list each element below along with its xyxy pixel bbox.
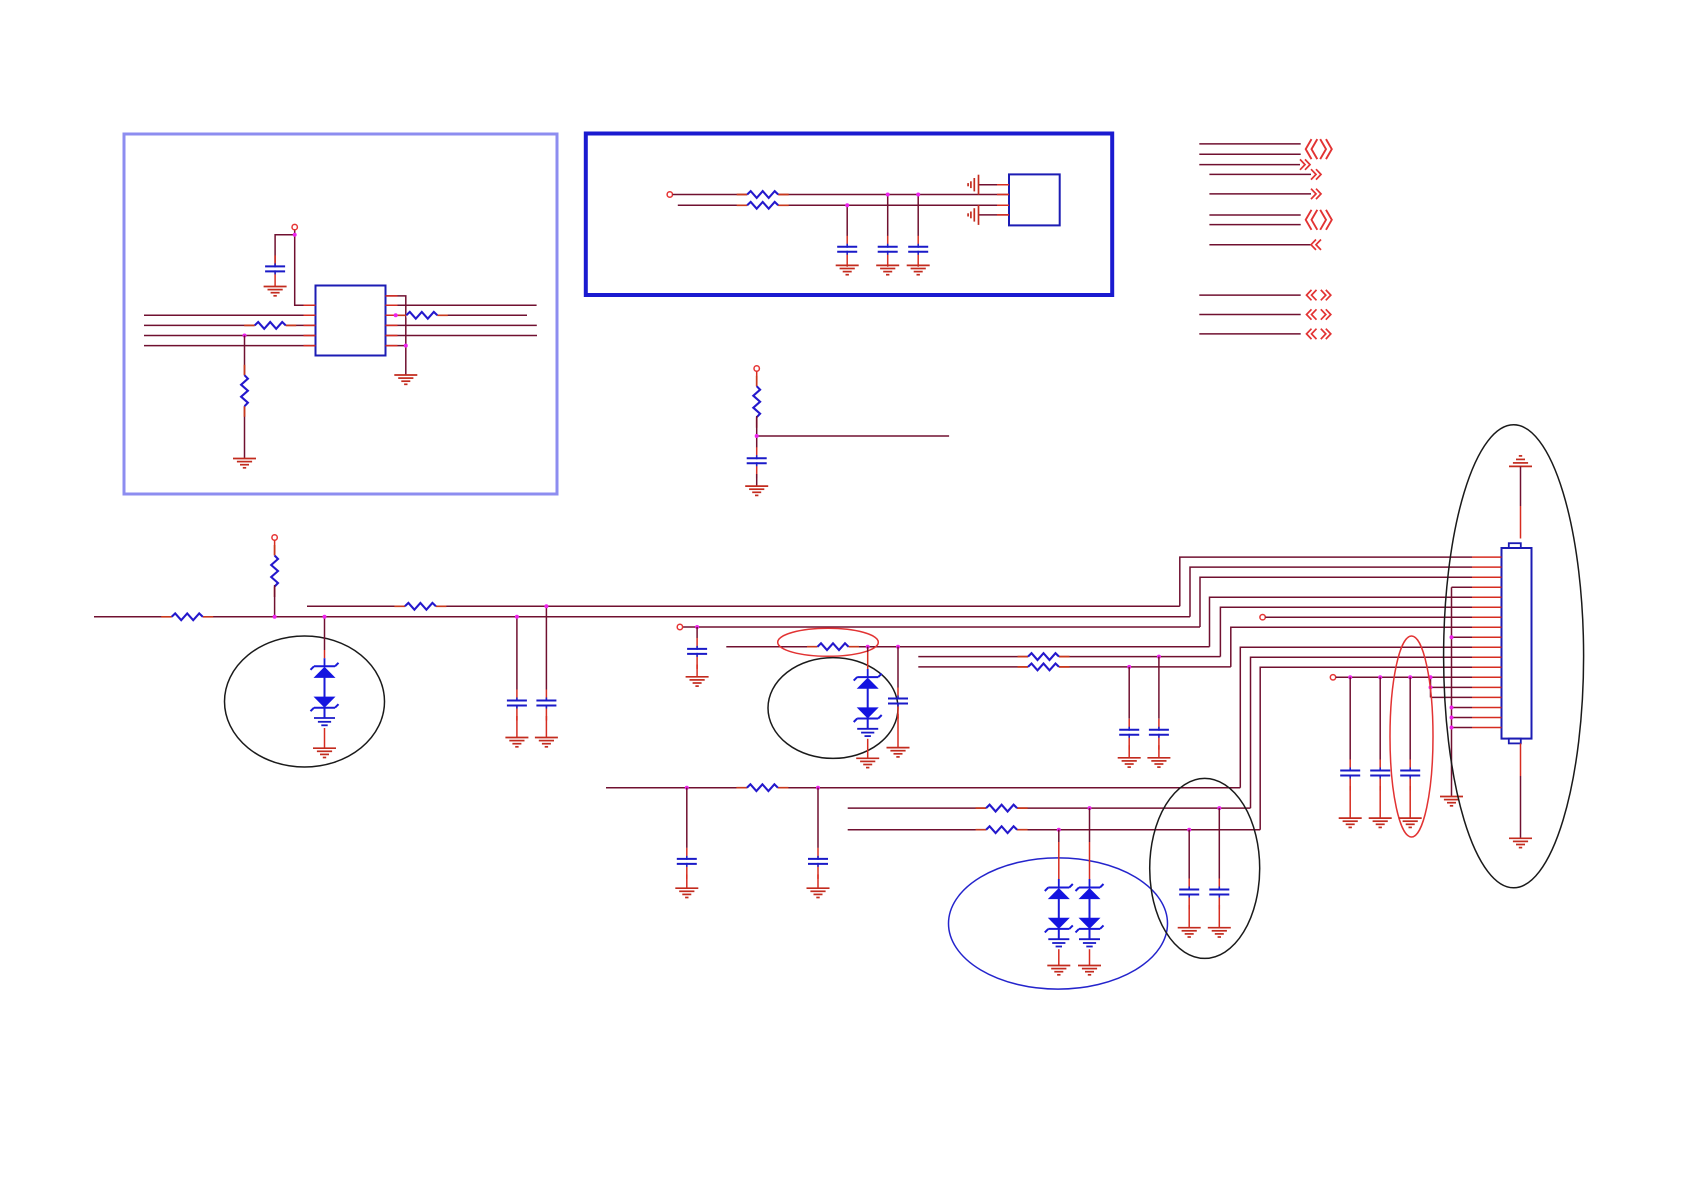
ground GND-C1 [264,287,287,296]
ground GND-TVS1 [313,748,336,757]
zener pair D7/D8 [1076,884,1104,947]
pin stubs U1 right [386,296,398,346]
wire J1 top ground lead [1520,466,1522,506]
junction node K-drop [1429,675,1433,679]
resistor R15 [976,826,1028,833]
wire C15 ground lead [1218,905,1220,928]
wire C6 ground lead [516,716,518,738]
junction node R2-top [243,334,247,338]
ground GND-C5 [745,486,768,495]
resistor R2 [241,365,248,417]
connector J1 top tab [1509,543,1521,548]
off-page chevron OP5 [1311,189,1321,199]
wire net P4 to R8 [274,540,276,557]
wire TVS2 to ground [867,739,869,759]
junction node K-C16 [1348,675,1352,679]
circle annotation E7 (big black ellipse around connector J1) [1444,425,1584,888]
terminal P5 [677,624,682,629]
capacitor C6 [507,690,527,721]
capacitor C4 [908,236,928,267]
block box 1 (top-left section frame) [124,134,557,494]
wire TVS3 to ground [1058,949,1060,965]
wire net OP11 [1199,333,1300,335]
capacitor C9 [888,688,908,719]
wire C11 ground lead [1158,745,1160,758]
wire C16 ground lead [1349,786,1351,818]
junction node G-C13 [816,786,820,790]
wire net I to TVS D5/D6 [1058,830,1060,842]
wire C7 ground lead [545,716,547,738]
junction node C3 [886,193,890,197]
off-page chevrons OP9 [1307,290,1331,300]
capacitor C10 [1119,719,1139,750]
capacitor C13 [808,848,828,879]
wire net IN-A (upper) [673,194,1009,196]
ground GND-C18 [1399,818,1422,827]
junction node B-C6 [515,615,519,619]
ground GND-C15 [1208,928,1231,937]
wire net R6-C5 node with stub right [757,416,949,448]
wire C10 ground lead [1128,745,1130,758]
ground GND-C7 [535,738,558,747]
junction node VCC-U1 [293,233,297,237]
off-page chevron OP8 [1311,240,1321,250]
wire net OP6 [1209,214,1300,216]
junction node D-TVS2 [866,645,870,649]
ground GND-C2 [836,265,859,274]
terminal P4 (pull-up top) [272,535,277,540]
capacitor C5 [747,447,767,478]
wire net D to TVS D3/D4 [867,647,869,652]
resistor R8 [271,545,278,597]
wire net H cap C15 tap [1218,808,1220,878]
ground GND-C11 [1147,758,1170,767]
wire net OP8 [1209,244,1311,246]
wire net C2 tap [846,205,848,236]
ground GND-C3 [876,265,899,274]
junction node I-TVS3 [1057,828,1061,832]
wire net J (pin7) [1265,616,1472,618]
capacitor C8 [687,638,707,669]
wire net F (pair1 lower) to connector pin8 [918,627,1472,667]
capacitor C1 [265,255,285,286]
chassis ground GND-U2-pin1 [968,175,978,195]
ground GND-C10 [1118,758,1141,767]
wire net R8 to net B [274,585,276,617]
capacitor C16 [1340,760,1360,791]
wire net OP3 [1199,164,1300,166]
ground GND-C8 [686,677,709,686]
ground GND-R2 [233,459,256,468]
junction node GNDBUS-pin9 [1450,635,1454,639]
circle annotation E2 (red ellipse around R10) [778,628,879,656]
capacitor C7 [536,690,556,721]
resistor R12 [1018,664,1070,671]
wire net A (y606) to connector pin1 [307,557,1472,606]
ground GND-J1-top (inverted) [1509,456,1532,467]
off-page chevrons OP1/OP2 pair [1306,139,1332,159]
circle annotation E6 (red ellipse around C18) [1390,636,1433,837]
ground GND-C6 [505,738,528,747]
wire net U1 left pins 2-5 [144,315,316,345]
wire net D cap C9 tap [897,647,899,688]
wire C14 ground lead [1188,905,1190,928]
wire net P3 to R6 [756,371,758,387]
wire TVS4 to ground [1089,949,1091,965]
junction node GNDBUS-pin17 [1450,716,1454,720]
wire net I cap C14 tap [1188,830,1190,879]
wire net H (pair2 upper y808) to connector pin11 [848,657,1472,808]
resistor R4 [737,191,789,198]
ground GND-C16 [1339,818,1362,827]
ground GND-J1-bottom [1509,838,1532,847]
junction node I-C14 [1187,828,1191,832]
wire net OP2 [1199,153,1300,155]
capacitor C11 [1149,719,1169,750]
capacitor C17 [1370,760,1390,791]
terminal P7 (pin13 net) [1330,675,1335,680]
wire net G cap C13 tap [817,788,819,848]
junction node GNDBUS-pin16 [1450,706,1454,710]
capacitor C3 [878,236,898,267]
wire net G cap C12 tap [686,788,688,848]
junction node GNDBUS-pin18 [1450,726,1454,730]
resistor R10 [807,643,859,650]
terminal P2 [667,192,672,197]
junction node K-C17 [1378,675,1382,679]
junction node U1-gnd [404,344,408,348]
off-page chevron OP4 [1311,169,1321,179]
ground GND-C14 [1178,928,1201,937]
resistor R11 [1018,653,1070,660]
off-page chevrons OP10 [1307,309,1331,319]
wire net OP9 [1199,294,1300,296]
wire net K cap C17 tap [1379,677,1381,759]
junction node B-TVS1 [323,615,327,619]
resistor R5 [737,202,789,209]
wire TVS1 to ground [324,728,326,748]
wire net C (terminal y627) to connector pin3 [683,577,1472,627]
junction node E-C11 [1157,655,1161,659]
wire net B cap C6 tap [516,617,518,690]
resistor R6 [753,376,760,428]
wire net K cap C16 tap [1349,677,1351,759]
connector J1 body [1502,548,1532,739]
capacitor C12 [677,848,697,879]
junction node A-C7 [544,604,548,608]
ground GND-TVS2 [856,758,879,767]
wire net G (y788) to connector pin10 [606,647,1472,787]
junction node R6-C5 [755,434,759,438]
wire net U2 pin4 to chassis [979,214,1010,216]
wire net E (pair1 upper) to connector pin6 [918,607,1472,656]
wire net U1-gnd (pins 1R,6R to ground) [386,296,406,375]
wire net K (pin13 net with caps) [1336,677,1472,697]
wire net C cap C8 tap [696,627,698,638]
wire net R2 pulldown [244,336,246,459]
junction node C-C8 [695,625,699,629]
wire net OP5 [1209,193,1311,195]
wire net C3 tap [887,195,889,237]
junction node K-pin14 [1429,685,1433,689]
ground GND-U1 [394,375,417,384]
ground GND-C9 [887,748,910,757]
wire C12 ground lead [686,874,688,888]
wire net U1 right outputs [386,305,538,335]
junction node F-C10 [1127,665,1131,669]
zener pair D5/D6 [1045,884,1073,947]
off-page chevron OP3 [1300,159,1310,169]
IC U1 [316,286,386,356]
zener pair D3/D4 [854,674,882,737]
wire net GNDBUS (connector ground rail) [1452,587,1473,796]
terminal P3 [754,366,759,371]
wire net A cap C7 tap [545,606,547,689]
pin stubs U2 [997,185,1009,215]
ground GND-C4 [907,265,930,274]
junction node C4 [916,193,920,197]
resistor R14 [976,805,1028,812]
IC U2 [1009,174,1060,225]
ground GND-C12 [675,888,698,897]
ground GND-C17 [1369,818,1392,827]
capacitor C14 [1179,879,1199,910]
junction node G-C12 [685,786,689,790]
wire net IN-B (lower) [678,204,1009,206]
wire net C4 tap [917,195,919,237]
capacitor C2 [837,236,857,267]
terminal P1 [292,224,297,229]
capacitor C15 [1209,879,1229,910]
terminal P6 (pin7 net) [1260,615,1265,620]
circle annotation E1 (black ellipse TVS1) [225,636,385,767]
pin stubs J1 (18 pins) [1472,557,1502,727]
junction node H-TVS4 [1088,806,1092,810]
wire J1 bottom ground lead [1520,743,1522,776]
zener pair D1/D2 [311,663,339,726]
pin stubs U1 left [304,305,316,345]
ground GND-TVS3 [1047,966,1070,975]
wire net D (y647) to connector pin5 [726,597,1472,647]
circle annotation E4 (blue ellipse TVS3/TVS4) [949,858,1168,989]
wire C13 ground lead [817,874,819,888]
wire net K cap C18 tap [1409,677,1411,759]
junction node D-C9 [896,645,900,649]
ground GND-BUS [1440,797,1463,806]
resistor R13 [736,784,788,791]
wire net OP4 [1209,173,1311,175]
chassis ground GND-U2-pin4 [968,205,978,225]
ground GND-C13 [807,888,830,897]
wire net OP7 [1209,224,1300,226]
off-page chevrons OP6/OP7 pair [1306,210,1332,230]
wire net U2 pin1 to chassis [979,184,1010,186]
ground GND-TVS4 [1078,966,1101,975]
circle annotation E3 (black ellipse TVS2) [768,658,898,759]
wire C9 ground lead [897,714,899,748]
wire C5 to ground [756,474,758,486]
resistor R7 [161,613,213,620]
junction node B-R8 [273,615,277,619]
circle annotation E5 (black ellipse C14/C15) [1150,778,1260,958]
wire net E cap C11 tap [1158,657,1160,719]
wire C8 ground lead [696,665,698,677]
wire net I (pair2 lower y830) to connector pin12 [848,667,1472,829]
wire net F cap C10 tap [1128,667,1130,719]
wire net VCC-U1 (terminal to U1 pin1 and bypass cap) [275,230,315,306]
block box 2 (top-middle section frame) [586,134,1112,296]
wire net B to TVS D1/D2 [324,617,326,650]
wire net B (main y617) to connector pin2 [94,567,1472,617]
wire net OP1 [1199,143,1300,145]
junction node R3-in [394,313,398,317]
connector J1 bottom tab [1509,739,1521,744]
resistor R3 [396,312,448,319]
junction node C2 [845,203,849,207]
off-page chevrons OP11 [1307,329,1331,339]
junction node H-C15 [1217,806,1221,810]
wire net H to TVS D7/D8 [1089,808,1091,842]
wire C18 ground lead [1409,786,1411,818]
resistor R9 [394,603,446,610]
capacitor C18 [1400,760,1420,791]
junction node K-C18 [1408,675,1412,679]
wire C17 ground lead [1379,786,1381,818]
wire net OP10 [1199,314,1300,316]
resistor R1 [244,322,296,329]
